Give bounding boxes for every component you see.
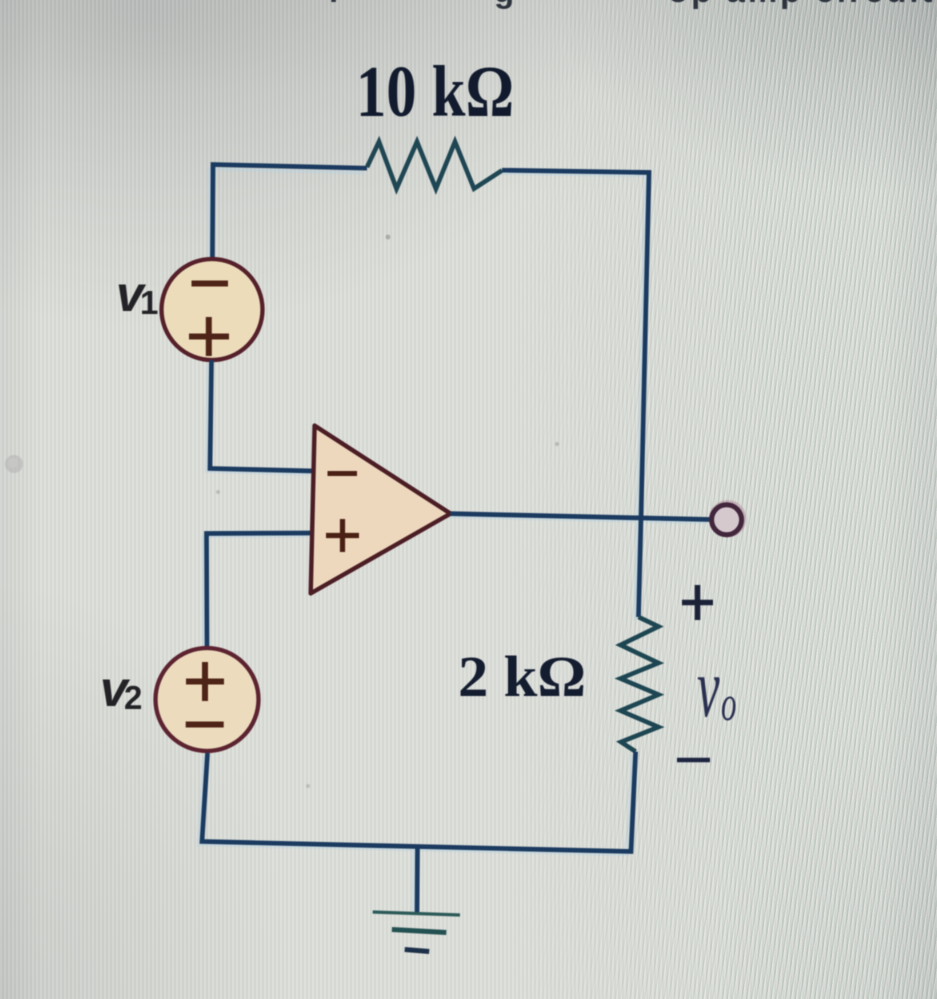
v2 minus sign bbox=[186, 722, 224, 728]
output plus label bbox=[682, 585, 713, 620]
svg-text:1: 1 bbox=[140, 284, 158, 321]
svg-text:10 kΩ: 10 kΩ bbox=[356, 51, 514, 132]
wire: op-amp output to terminal bbox=[451, 514, 711, 520]
svg-text:2: 2 bbox=[124, 679, 142, 716]
v1 plus sign bbox=[189, 317, 229, 356]
wire: op-amp non-inverting input to v2 top bbox=[207, 533, 314, 648]
ground bar 2 bbox=[392, 930, 446, 933]
ground bar 3 bbox=[405, 950, 430, 952]
wire: v1 bottom to op-amp inverting input bbox=[210, 360, 313, 471]
svg-text:o: o bbox=[721, 676, 736, 731]
v2 plus sign bbox=[186, 662, 224, 701]
wire: top-left loop (v1 top to feedback resistor left) bbox=[212, 165, 367, 261]
wire: ground stem bbox=[415, 847, 420, 914]
wire glow fringe (photo chromatic aberration) bbox=[199, 169, 707, 916]
resistor R-feedback 10 kOhm zigzag bbox=[367, 142, 502, 189]
wire: top-right corner down to output node and on to 2k resistor top bbox=[502, 170, 649, 617]
v1 minus sign bbox=[192, 281, 229, 287]
voltage source v1 bbox=[162, 259, 263, 360]
faint smudge dot left edge bbox=[5, 455, 23, 473]
ground bar 1 bbox=[373, 912, 460, 915]
voltage source v2 bbox=[156, 648, 259, 751]
output minus label bbox=[677, 758, 710, 763]
svg-text:v: v bbox=[697, 642, 720, 735]
resistor 2 kOhm zigzag bbox=[621, 617, 659, 752]
svg-text:2 kΩ: 2 kΩ bbox=[458, 644, 586, 709]
wire: bottom rail v2 to right branch bbox=[202, 752, 636, 852]
output terminal circle bbox=[710, 501, 745, 536]
photo speckles bbox=[386, 235, 391, 240]
op-amp triangle bbox=[311, 426, 451, 594]
op-amp minus input sign bbox=[328, 471, 358, 476]
op-amp plus input sign bbox=[326, 519, 359, 552]
